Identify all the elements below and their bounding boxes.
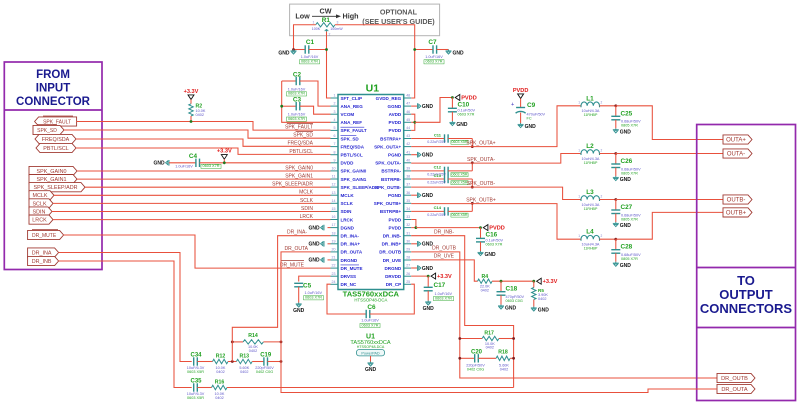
svg-text:0805 X7R: 0805 X7R — [621, 217, 638, 221]
svg-text:C11: C11 — [434, 132, 442, 137]
svg-text:GND: GND — [365, 367, 377, 373]
svg-text:C28: C28 — [621, 244, 633, 251]
tag OUTB+ — [723, 208, 752, 217]
wire DR_INA- from pin 18 — [232, 236, 330, 342]
capacitor C27 — [615, 200, 617, 211]
pin 17 DGND — [331, 227, 339, 229]
ground at C17 — [425, 301, 431, 306]
svg-text:0603 X7R: 0603 X7R — [362, 323, 379, 327]
capacitor C1 — [294, 49, 306, 51]
pin 31 DR_INB- — [404, 235, 412, 237]
pin 45 PVDD — [404, 121, 412, 123]
junction C12 to speaker line — [471, 161, 474, 164]
svg-text:10: 10 — [332, 167, 336, 171]
svg-text:+3.3V: +3.3V — [217, 149, 232, 155]
capacitor C34 — [194, 357, 198, 365]
inductor L1 — [581, 102, 600, 107]
svg-text:1: 1 — [578, 148, 580, 152]
svg-text:0603 X5R: 0603 X5R — [452, 172, 468, 176]
svg-text:0603 X5R: 0603 X5R — [187, 396, 204, 400]
svg-text:LRCK: LRCK — [341, 217, 354, 222]
ground at R5 — [531, 307, 537, 312]
capacitor C18 — [500, 281, 502, 292]
svg-text:R13: R13 — [240, 353, 250, 359]
tag DR_OUTB — [717, 373, 755, 382]
svg-text:PVDD: PVDD — [389, 225, 402, 230]
tag DR_OUTA — [717, 384, 755, 393]
pin 42 SPK_OUTA+ — [404, 146, 412, 148]
svg-text:SPK_GAIN0: SPK_GAIN0 — [341, 169, 367, 174]
svg-text:OUTA-: OUTA- — [727, 151, 745, 157]
svg-text:31: 31 — [406, 231, 410, 235]
resistor R14 feedback — [232, 341, 243, 343]
pin 15 SDIN — [331, 210, 339, 212]
capacitor C12 — [411, 170, 444, 172]
svg-text:FREQ/SDA: FREQ/SDA — [42, 137, 70, 143]
pin 6 SPK_SD — [331, 138, 339, 140]
svg-text:SPK_GAIN1: SPK_GAIN1 — [341, 177, 367, 182]
svg-text:100K: 100K — [312, 27, 321, 31]
wire C6 to DR_CP — [370, 284, 415, 314]
junction C16 — [479, 226, 482, 229]
svg-text:+3.3V: +3.3V — [437, 274, 452, 280]
wire L4 to OUTB+ — [616, 212, 723, 239]
svg-text:8: 8 — [334, 150, 336, 154]
wire DR_INA to C34 — [59, 253, 192, 362]
pin 23 DRVSS — [331, 275, 339, 277]
svg-text:R1: R1 — [322, 17, 331, 24]
svg-text:DR_INA-: DR_INA- — [287, 230, 307, 236]
wire PVDD pins 32-33 — [411, 220, 416, 228]
resistor R5 — [533, 281, 535, 287]
svg-text:R12: R12 — [216, 353, 226, 359]
wire R14 left to R12 junction — [231, 342, 233, 362]
wire R1 right to C7 and GVDD_REG pin 48 — [335, 25, 415, 98]
wire L2 to OUTA- — [616, 153, 723, 155]
wire SPK_GAIN0 — [77, 170, 331, 172]
svg-text:40: 40 — [406, 158, 410, 162]
inductor L3 — [581, 196, 600, 201]
svg-text:FROM: FROM — [36, 69, 70, 81]
svg-text:GND: GND — [308, 258, 320, 264]
svg-text:U1: U1 — [366, 83, 380, 95]
svg-text:C14: C14 — [434, 205, 442, 210]
svg-text:FREQ/SDA: FREQ/SDA — [287, 141, 313, 147]
tag FREQ/SDA — [35, 134, 76, 143]
svg-text:1.0uF/16V: 1.0uF/16V — [288, 87, 306, 91]
svg-text:0603 X7R: 0603 X7R — [301, 60, 318, 64]
junction C14 to speaker line — [471, 202, 474, 205]
svg-text:R14: R14 — [248, 333, 258, 339]
svg-text:1.0uF/16V: 1.0uF/16V — [361, 319, 379, 323]
wire SPK_OUTB- to L3 — [411, 187, 581, 199]
svg-text:DR_OUTA: DR_OUTA — [341, 250, 363, 255]
svg-text:LRCK: LRCK — [300, 214, 314, 220]
ground at C4 — [166, 160, 169, 166]
pin 25 DR_CP — [404, 283, 412, 285]
svg-text:34: 34 — [406, 207, 410, 211]
pin 35 SPK_OUTB+ — [404, 202, 412, 204]
capacitor C5 — [299, 276, 331, 281]
tag OUTA+ — [723, 135, 752, 144]
svg-text:L2: L2 — [586, 143, 594, 150]
svg-text:GND: GND — [525, 124, 537, 130]
wire R16 to feedback node — [227, 387, 514, 389]
svg-text:0402: 0402 — [538, 297, 546, 301]
svg-text:SPK_SLEEP/ADR: SPK_SLEEP/ADR — [272, 182, 313, 188]
svg-text:100mW: 100mW — [330, 27, 343, 31]
svg-text:0.22uF/25V: 0.22uF/25V — [427, 213, 446, 217]
svg-text:DR_INA: DR_INA — [32, 250, 52, 256]
ground at GGND pin 47 — [411, 105, 417, 107]
pin 46 AVDD — [404, 113, 412, 115]
svg-text:0.22uF/25V: 0.22uF/25V — [427, 140, 446, 144]
svg-text:0603 X7R: 0603 X7R — [288, 117, 305, 121]
svg-text:43: 43 — [406, 134, 410, 138]
junction PVDD pins — [413, 121, 416, 124]
wire SPK_FAULT — [77, 122, 331, 131]
wire DR_MUTE — [64, 235, 331, 268]
svg-text:19: 19 — [332, 239, 336, 243]
pin 19 DR_INA+ — [331, 243, 339, 245]
svg-text:2: 2 — [601, 194, 603, 198]
ground at C7 — [446, 50, 452, 55]
svg-text:C4: C4 — [189, 153, 198, 160]
svg-text:SPK_GAIN0: SPK_GAIN0 — [37, 169, 67, 175]
svg-text:0805 X7R: 0805 X7R — [621, 124, 638, 128]
junction R14 left — [231, 341, 234, 344]
inductor L4 — [581, 235, 600, 240]
tag SDIN — [29, 207, 52, 216]
junction C25 — [614, 104, 617, 107]
pin 48 GVDD_REG — [404, 97, 412, 99]
svg-text:SPK_FAULT: SPK_FAULT — [285, 125, 313, 131]
svg-text:C7: C7 — [428, 39, 437, 46]
svg-text:Low: Low — [295, 12, 310, 21]
svg-text:+3.3V: +3.3V — [184, 89, 199, 95]
svg-text:HTSSOP48-DCA: HTSSOP48-DCA — [354, 298, 387, 303]
wire L1 output — [600, 105, 616, 107]
svg-text:DRGND: DRGND — [385, 266, 402, 271]
svg-text:OUTB-: OUTB- — [727, 197, 746, 203]
svg-text:PGND: PGND — [388, 153, 402, 158]
svg-text:DRVSS: DRVSS — [341, 274, 357, 279]
capacitor C11 — [411, 138, 444, 140]
wire PVDD pin 32 to C16 — [416, 227, 481, 229]
pin 28 DR_UVE — [404, 259, 412, 261]
from-input-connector box — [4, 62, 102, 270]
svg-text:4: 4 — [334, 118, 336, 122]
wire L2 output — [600, 153, 616, 155]
svg-text:C12: C12 — [434, 165, 442, 170]
svg-text:R5: R5 — [538, 288, 544, 293]
ground at PGND pin 36 — [411, 194, 417, 196]
tag OUTA- — [723, 149, 752, 158]
potentiometer R1 — [316, 23, 335, 27]
wire DR_OUTB down to output — [411, 252, 717, 378]
svg-text:TO: TO — [737, 273, 755, 288]
svg-text:DR_UVE: DR_UVE — [383, 258, 401, 263]
ground at C28 — [613, 262, 619, 267]
svg-text:DR_OUTB: DR_OUTB — [721, 376, 748, 382]
power PVDD flag at C10 — [455, 95, 460, 101]
pin 24 DR_NC — [331, 283, 339, 285]
wire PBTL/SCL — [76, 148, 331, 154]
wire R12 to R13 — [228, 361, 236, 363]
capacitor C7 — [415, 49, 433, 51]
junction C28 — [614, 238, 617, 241]
tag DR_INA — [28, 248, 59, 257]
svg-text:0603 X7R: 0603 X7R — [426, 60, 443, 64]
wire SCLK — [53, 202, 331, 204]
optional note box — [290, 4, 440, 36]
svg-text:28: 28 — [406, 256, 410, 260]
capacitor C2 — [282, 80, 297, 82]
tag SPK_FAULT — [35, 117, 77, 126]
pin 8 PBTL/SCL — [331, 154, 339, 156]
svg-text:C13: C13 — [434, 173, 442, 178]
ground at C10 — [449, 121, 455, 126]
svg-text:PVDD: PVDD — [389, 120, 402, 125]
wire DR_UVE to R4 — [411, 260, 477, 281]
svg-text:DR_MUTE: DR_MUTE — [280, 262, 305, 268]
pin 9 DVDD — [331, 162, 339, 164]
svg-text:21: 21 — [332, 256, 336, 260]
svg-text:44: 44 — [406, 126, 410, 130]
svg-text:SCLK: SCLK — [300, 198, 314, 204]
svg-text:11: 11 — [332, 175, 336, 179]
svg-text:SDIN: SDIN — [33, 209, 46, 215]
junction R17 right — [512, 337, 515, 340]
ground at C16 — [478, 251, 484, 256]
wire LRCK — [53, 219, 331, 221]
svg-text:BSTRPA+: BSTRPA+ — [380, 136, 401, 141]
svg-text:SDIN: SDIN — [341, 209, 352, 214]
svg-text:0603 X5R: 0603 X5R — [187, 370, 204, 374]
svg-text:MCLK: MCLK — [33, 193, 48, 199]
pin 22 DR_MUTE — [331, 267, 339, 269]
svg-text:0603 X7R: 0603 X7R — [305, 296, 322, 300]
svg-text:SPK_SD: SPK_SD — [293, 133, 313, 139]
wire PVDD rail to C10 — [415, 98, 453, 123]
pin 1 SFT_CLIP — [331, 97, 339, 99]
svg-text:R18: R18 — [498, 349, 508, 355]
ground at C25 — [613, 128, 619, 133]
pin 18 DR_INA- — [331, 235, 339, 237]
svg-text:45: 45 — [406, 118, 410, 122]
svg-text:GND: GND — [422, 104, 434, 110]
svg-text:PVDD: PVDD — [389, 128, 402, 133]
junction +3.3V DVDD — [223, 161, 226, 164]
capacitor C26 — [615, 154, 617, 165]
wire SPK_SLEEP/ADR — [85, 186, 331, 188]
svg-text:47: 47 — [406, 102, 410, 106]
power +3.3V at R2 — [188, 95, 194, 100]
svg-text:BSTRPB-: BSTRPB- — [381, 177, 402, 182]
svg-text:C25: C25 — [621, 110, 633, 117]
svg-text:SDIN: SDIN — [301, 206, 313, 212]
svg-text:DR_MUTE: DR_MUTE — [341, 266, 363, 271]
resistor R16 — [212, 385, 228, 389]
svg-text:GND: GND — [453, 51, 465, 57]
capacitor C35 — [194, 383, 198, 391]
ground at C9 — [518, 123, 524, 128]
pin 2 ANA_REG — [331, 105, 339, 107]
svg-text:R17: R17 — [484, 330, 494, 336]
svg-text:BSTRPB+: BSTRPB+ — [380, 209, 402, 214]
svg-text:LRCK: LRCK — [32, 218, 47, 224]
svg-text:0402: 0402 — [486, 346, 494, 350]
svg-text:24: 24 — [332, 280, 336, 284]
svg-text:L3: L3 — [586, 189, 594, 196]
svg-text:41: 41 — [406, 150, 410, 154]
svg-text:SCLK: SCLK — [32, 201, 46, 207]
pin 7 FREQ/SDA — [331, 146, 339, 148]
svg-text:0603 C0G: 0603 C0G — [506, 299, 523, 303]
pin 21 DRGND — [331, 259, 339, 261]
junction C20 left — [458, 357, 461, 360]
svg-text:C1: C1 — [306, 39, 315, 46]
svg-text:0603 X7R: 0603 X7R — [458, 112, 475, 116]
tag SCLK — [29, 199, 53, 208]
svg-text:30: 30 — [406, 239, 410, 243]
junction PVDD pin 32 — [415, 226, 418, 229]
svg-text:FC: FC — [527, 117, 532, 121]
svg-text:DGND: DGND — [341, 225, 355, 230]
capacitor C20 — [460, 357, 475, 359]
capacitor C3 — [282, 105, 297, 107]
svg-text:C17: C17 — [434, 282, 446, 289]
svg-text:PVDD: PVDD — [513, 88, 529, 94]
svg-text:1.0uF/16V: 1.0uF/16V — [425, 55, 443, 59]
svg-text:L4: L4 — [586, 229, 594, 236]
svg-text:GND: GND — [620, 263, 632, 269]
svg-text:DR_INA+: DR_INA+ — [341, 242, 361, 247]
pin 5 SPK_FAULT — [331, 129, 339, 131]
junction C18 — [500, 280, 503, 283]
svg-text:0402: 0402 — [215, 396, 223, 400]
svg-text:SPK_SD: SPK_SD — [37, 128, 57, 134]
svg-text:+: + — [511, 102, 514, 108]
capacitor C13 — [411, 178, 444, 180]
svg-text:GND: GND — [505, 306, 517, 312]
wire DR_OUTA from pin 20 to output — [281, 252, 717, 393]
svg-text:GND: GND — [423, 306, 435, 312]
svg-text:DR_OUTB: DR_OUTB — [432, 246, 457, 252]
capacitor C16 — [480, 228, 482, 239]
inductor L2 — [581, 150, 600, 155]
svg-text:CW: CW — [320, 7, 332, 16]
power PVDD flag at C9 — [518, 94, 524, 99]
svg-text:11RHBP: 11RHBP — [584, 247, 598, 251]
ground at PGND pin 41 — [411, 154, 417, 156]
svg-text:0805 X7R: 0805 X7R — [621, 171, 638, 175]
svg-text:33: 33 — [406, 215, 410, 219]
resistor R2 — [190, 100, 192, 104]
svg-text:SPK_OUTB-: SPK_OUTB- — [467, 181, 496, 187]
capacitor C9 polarized — [520, 99, 522, 108]
svg-text:SPK_GAIN1: SPK_GAIN1 — [285, 174, 313, 180]
wire SPK_SD — [64, 130, 331, 138]
svg-text:PGND: PGND — [388, 193, 402, 198]
svg-text:ANA_REG: ANA_REG — [341, 104, 364, 109]
svg-text:SPK_FAULT: SPK_FAULT — [341, 128, 367, 133]
capacitor C4 — [169, 162, 196, 164]
svg-text:SPK_OUTA+: SPK_OUTA+ — [374, 144, 401, 149]
svg-text:CONNECTOR: CONNECTOR — [16, 96, 91, 108]
svg-text:0603 X7R: 0603 X7R — [203, 164, 220, 168]
wire SDIN — [52, 211, 331, 213]
tag DR_INB — [28, 256, 59, 265]
ground at DRGND pin 21 — [321, 257, 324, 263]
junction C19 right — [280, 360, 283, 363]
svg-text:DVDD: DVDD — [341, 161, 355, 166]
wire MCLK — [54, 194, 331, 196]
capacitor C6 — [366, 310, 370, 318]
junction C7 left — [413, 48, 416, 51]
pin 34 BSTRPB+ — [404, 210, 412, 212]
svg-text:46: 46 — [406, 110, 410, 114]
junction C27 — [614, 198, 617, 201]
wire L3 output — [600, 199, 616, 201]
junction R2 on SPK_FAULT — [190, 120, 193, 123]
svg-text:32: 32 — [406, 223, 410, 227]
svg-text:R4: R4 — [481, 274, 488, 280]
resistor R18 — [496, 356, 510, 360]
pin 26 DRVDD — [404, 275, 412, 277]
resistor R12 — [213, 359, 229, 363]
wire ANA_REF rail — [282, 81, 331, 122]
svg-text:C18: C18 — [506, 286, 518, 293]
svg-text:15: 15 — [332, 207, 336, 211]
ground at PowerPAD — [368, 362, 374, 367]
svg-text:2: 2 — [329, 32, 331, 36]
svg-text:11RHBP: 11RHBP — [584, 161, 598, 165]
tag LRCK — [29, 215, 53, 224]
svg-text:0402: 0402 — [481, 288, 489, 292]
svg-text:DR_OUTB: DR_OUTB — [379, 250, 402, 255]
pin 3 VCOM — [331, 113, 339, 115]
svg-text:VCOM: VCOM — [341, 112, 355, 117]
svg-text:7: 7 — [334, 142, 336, 146]
svg-text:0402: 0402 — [249, 349, 257, 353]
pin 41 PGND — [404, 154, 412, 156]
svg-text:+3.3V: +3.3V — [543, 279, 558, 285]
svg-text:C9: C9 — [527, 102, 536, 109]
svg-text:SPK_OUTA-: SPK_OUTA- — [375, 161, 401, 166]
svg-text:R16: R16 — [215, 379, 225, 385]
wire R1 left to C1 — [294, 25, 316, 50]
junction R5 — [532, 280, 535, 283]
svg-text:39: 39 — [406, 167, 410, 171]
tag OUTB- — [723, 195, 752, 204]
svg-text:SPK_OUTA+: SPK_OUTA+ — [466, 140, 495, 146]
svg-text:DR_INB+: DR_INB+ — [382, 242, 402, 247]
svg-text:MCLK: MCLK — [341, 193, 355, 198]
power +3.3V at DRVDD — [431, 273, 436, 279]
svg-text:DR_CP: DR_CP — [386, 282, 401, 287]
svg-text:GND: GND — [485, 252, 497, 258]
junction R18 right — [512, 357, 515, 360]
junction C1 right — [325, 48, 328, 51]
svg-text:0.22uF/25V: 0.22uF/25V — [427, 181, 446, 185]
svg-text:0402: 0402 — [500, 367, 508, 371]
power +3.3V at R5 — [537, 278, 542, 284]
svg-text:SPK_OUTB+: SPK_OUTB+ — [374, 201, 402, 206]
svg-text:1.0uF/16V: 1.0uF/16V — [288, 113, 306, 117]
pin 30 DR_INB+ — [404, 243, 412, 245]
svg-text:27: 27 — [406, 264, 410, 268]
